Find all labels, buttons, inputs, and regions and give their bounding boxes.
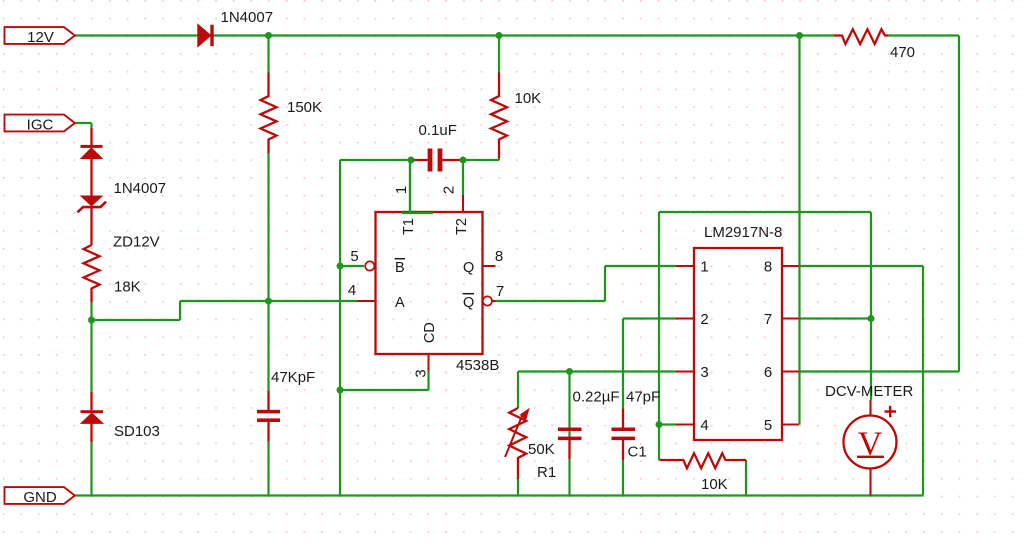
wire Qbar to pin1 [496,266,677,301]
node A 150K [265,298,272,305]
wire top horizontal pin4-pin7 link [659,211,871,213]
wire 0.22uF top leg [568,372,570,441]
wire pin4 stub run [659,423,676,425]
IC U2 LM2917N-8 box [694,248,782,440]
capacitor 0.1uF [411,149,463,172]
U2 pin 2 stub [676,318,694,320]
wire pin6 run [799,370,959,372]
wire right edge vertical (470 to pin6) [958,36,960,372]
flag GND [5,487,75,506]
svg-text:5: 5 [764,417,772,434]
wire pin2 to C1 [623,319,676,410]
svg-text:10K: 10K [701,476,728,493]
wire T1 green overlay [402,160,433,213]
pin 7 Qbar stub and bubble [483,296,496,305]
svg-text:T1: T1 [401,218,417,235]
wire pin8 to GND [799,266,923,496]
resistor 150K [261,73,277,154]
svg-text:Q: Q [463,295,474,311]
svg-text:4: 4 [348,282,356,299]
capacitor C1 47pF [612,409,636,461]
svg-text:2: 2 [440,186,457,194]
wire T1 pin drop [409,160,411,212]
svg-text:6: 6 [764,364,772,381]
svg-text:1N4007: 1N4007 [114,180,167,197]
svg-text:47KpF: 47KpF [271,369,315,386]
IC U1 4538B box [376,212,483,354]
svg-text:7: 7 [764,311,772,328]
svg-text:1N4007: 1N4007 [221,9,274,26]
wire 10K top branch [498,36,500,73]
pin 8 Q stub [483,265,496,267]
resistor 18K [84,245,100,302]
svg-text:3: 3 [413,369,430,377]
svg-text:R1: R1 [537,464,556,481]
wire 0.22uF bottom to GND [568,459,570,496]
capacitor 47KpF [257,391,280,442]
pin name Bbar [395,259,405,276]
node pin5 rail [796,32,803,39]
svg-text:SD103: SD103 [114,423,160,440]
svg-text:0.1uF: 0.1uF [419,122,457,139]
wire 47KpF bottom to GND [267,442,269,496]
resistor 10K top [491,73,507,159]
wire T2 pin drop [462,160,464,195]
wire voltmeter vertical [870,212,872,400]
resistor 10K bottom [660,453,747,468]
wire 10K2 right leg to GND [745,460,747,496]
wire IGC entry [75,123,92,128]
pin 5 Bbar stub and bubble [365,261,374,270]
wire pin4 vertical [658,212,660,460]
node CD [337,387,344,394]
voltmeter plus sign [885,406,897,418]
svg-text:C1: C1 [628,444,647,461]
svg-text:4538B: 4538B [456,357,499,374]
wire pot bottom to GND [517,479,519,496]
voltmeter DCV-METER [844,400,897,496]
svg-text:2: 2 [700,311,708,328]
svg-text:0.22µF: 0.22µF [573,389,620,406]
flag 12V [5,27,75,46]
svg-text:1: 1 [393,186,410,194]
svg-text:IGC: IGC [27,117,54,134]
wire pin3 row [518,370,676,372]
svg-text:LM2917N-8: LM2917N-8 [704,224,782,241]
svg-text:CD: CD [422,322,438,343]
diode D1 1N4007 top [198,25,214,46]
wire GND rail [75,494,923,496]
svg-text:10K: 10K [515,90,542,107]
wire 18K to node A [90,302,92,320]
node pin4 [656,421,663,428]
svg-text:8: 8 [495,248,503,265]
potentiometer R1 50K [505,408,529,479]
pin 1 T1 stub [409,195,411,213]
svg-text:B: B [395,260,405,276]
svg-text:18K: 18K [114,279,141,296]
pin name Qbar [463,294,475,311]
U2 pin 6 stub [782,371,799,373]
capacitor 0.22uF [558,428,582,460]
wire node to SD103 [90,320,92,392]
svg-text:GND: GND [23,489,57,506]
svg-text:4: 4 [700,417,708,434]
diode D2 1N4007 IGC branch [81,128,103,196]
node pin7 meter [868,315,875,322]
svg-text:7: 7 [496,283,504,300]
svg-text:12V: 12V [27,29,54,46]
wire pin7 to voltmeter node [799,317,871,319]
flag IGC [5,115,75,134]
U2 pin 8 stub [782,265,799,267]
node cap left [408,157,415,164]
wire 150K top [267,36,269,73]
wire SD103 to GND [90,442,92,496]
U2 pin 4 stub [676,424,694,426]
wire 10K bottom elbow to cap [463,158,499,160]
node cap right [460,157,467,164]
wire pot top leg [517,372,519,409]
svg-text:8: 8 [764,259,772,276]
svg-text:ZD12V: ZD12V [113,234,160,251]
node 150K top [265,32,272,39]
wire T1 box top artifact [402,211,433,213]
diode SD103 [81,392,104,442]
svg-text:3: 3 [700,364,708,381]
pin 4 A stub [358,300,376,302]
svg-text:T2: T2 [454,218,470,235]
svg-text:Q: Q [463,260,474,276]
resistor 470 [834,29,888,44]
svg-text:DCV-METER: DCV-METER [825,383,914,400]
U2 pin 7 stub [782,318,799,320]
wire A row from 18K [92,301,358,320]
U2 pin 1 stub [676,265,694,267]
wire B vertical to GND [339,160,341,496]
wire CD to B vertical [340,371,429,390]
wire 12V to pin5 vertical [798,36,800,425]
svg-text:A: A [395,295,405,311]
wire C1 bottom to GND [622,460,624,496]
wire 12V top rail [75,34,959,36]
wire 150K bottom to 47KpF [267,153,269,391]
svg-text:1: 1 [700,259,708,276]
U2 pin 5 stub [782,424,799,426]
svg-text:47pF: 47pF [626,389,660,406]
svg-text:5: 5 [350,248,358,265]
svg-text:50K: 50K [528,441,555,458]
node 18K [88,317,95,324]
pin 3 CD stub [428,354,430,371]
svg-text:150K: 150K [287,99,322,116]
node Bbar [337,263,344,270]
svg-text:470: 470 [890,44,915,61]
node 0.22uF [566,368,573,375]
node 10K top [496,32,503,39]
zener ZD12V [78,196,107,245]
pin 2 T2 stub [462,195,464,212]
wire Bbar stub [340,265,364,267]
U2 pin 3 stub [676,371,694,373]
wire cap left to B vertical [340,159,411,161]
